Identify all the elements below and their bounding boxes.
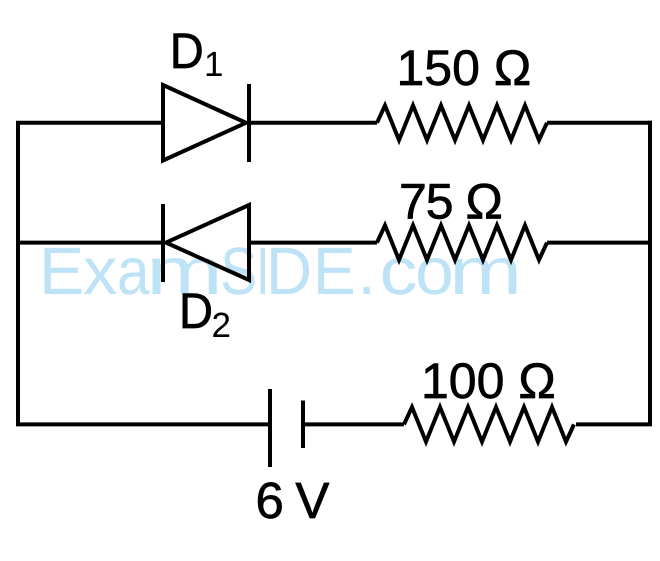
svg-text:6 V: 6 V [256, 472, 330, 529]
svg-text:D: D [170, 23, 204, 79]
svg-text:c: c [380, 234, 418, 309]
svg-text:D: D [266, 234, 312, 309]
svg-text:x: x [83, 234, 117, 309]
svg-text:D: D [179, 283, 213, 339]
svg-text:75 Ω: 75 Ω [399, 173, 502, 229]
svg-text:100 Ω: 100 Ω [421, 353, 556, 409]
svg-text:150 Ω: 150 Ω [397, 40, 532, 96]
svg-text:.: . [358, 234, 376, 309]
svg-text:E: E [39, 234, 84, 309]
svg-text:E: E [313, 234, 356, 309]
